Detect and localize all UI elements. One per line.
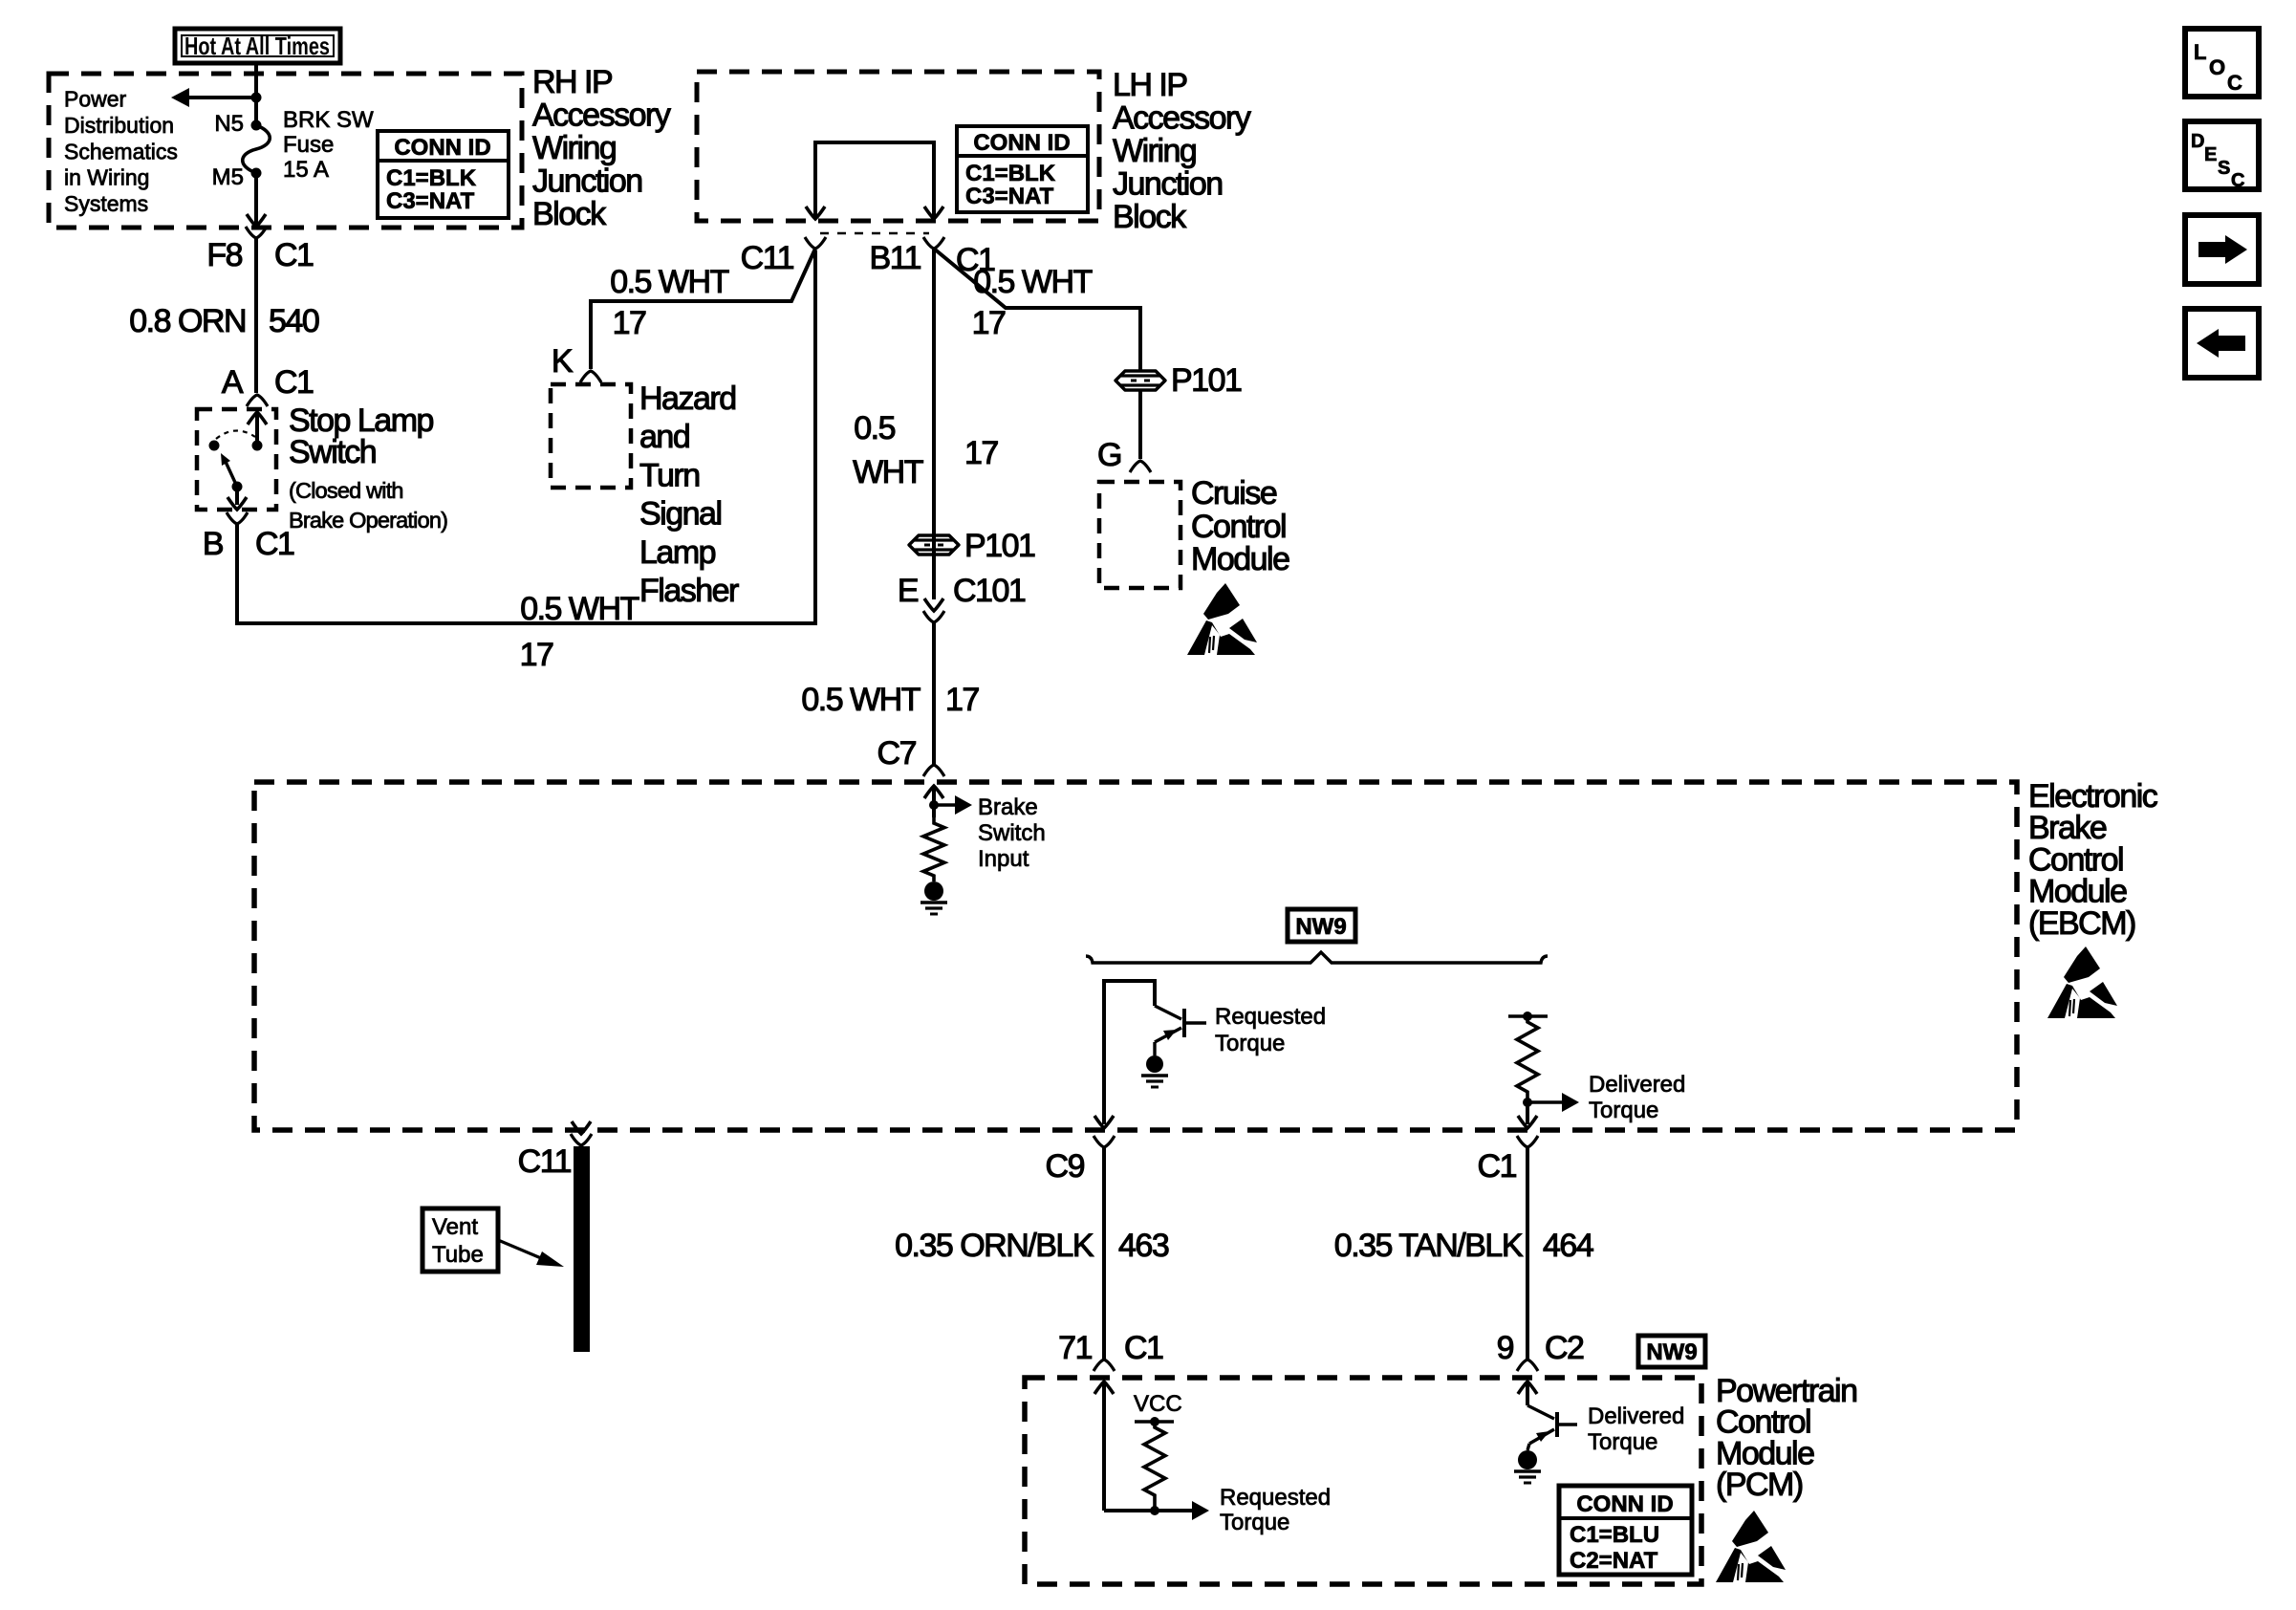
esd symbol (EBCM) bbox=[2047, 946, 2117, 1018]
svg-text:LH IP: LH IP bbox=[1113, 67, 1187, 103]
pin 9 arrow (male up) bbox=[1518, 1382, 1537, 1394]
junction block LH IP (dashed box) bbox=[697, 72, 1099, 221]
esd symbol (cruise control) bbox=[1187, 583, 1257, 655]
transistor Q delivered torque (PCM) bbox=[1527, 1405, 1554, 1419]
svg-text:M5: M5 bbox=[212, 164, 244, 190]
connector C1 pin arrow (male) bbox=[1518, 1116, 1537, 1128]
wire switch output bbox=[235, 487, 239, 505]
svg-text:(PCM): (PCM) bbox=[1716, 1467, 1803, 1503]
wire C9 internal bbox=[1104, 981, 1155, 1124]
wire P101 to cruise module bbox=[1138, 391, 1142, 459]
node M5 bbox=[251, 168, 262, 179]
icon box LOC bbox=[2185, 29, 2259, 97]
vent tube bbox=[574, 1146, 590, 1352]
svg-text:P101: P101 bbox=[964, 528, 1035, 564]
svg-text:0.5: 0.5 bbox=[854, 410, 895, 446]
svg-text:Turn: Turn bbox=[639, 457, 700, 493]
svg-text:C: C bbox=[2231, 170, 2244, 191]
svg-text:Delivered: Delivered bbox=[1589, 1072, 1685, 1098]
svg-text:Accessory: Accessory bbox=[532, 98, 671, 134]
svg-text:Brake: Brake bbox=[978, 794, 1038, 820]
svg-text:0.35 ORN/BLK: 0.35 ORN/BLK bbox=[895, 1228, 1094, 1264]
svg-text:K: K bbox=[552, 343, 574, 380]
connector C1 pin F8 (male) bbox=[247, 214, 266, 227]
pin 71 arrow (male up) bbox=[1094, 1382, 1114, 1394]
conn id table (RH IP) bbox=[378, 131, 509, 218]
svg-text:Vent: Vent bbox=[432, 1214, 478, 1240]
svg-text:(EBCM): (EBCM) bbox=[2028, 905, 2135, 942]
svg-text:C1: C1 bbox=[274, 364, 314, 401]
svg-text:C: C bbox=[2227, 71, 2242, 95]
stop lamp switch input arrow bbox=[248, 412, 267, 424]
conn id table (LH IP) bbox=[957, 126, 1088, 212]
wire from Hot At All Times bbox=[254, 63, 258, 125]
svg-text:0.5 WHT: 0.5 WHT bbox=[610, 264, 728, 300]
junction node (VCC) bbox=[1150, 1417, 1159, 1426]
junction node (brake switch input) bbox=[929, 800, 939, 810]
grommet P101 (cruise branch) bbox=[1116, 371, 1165, 390]
svg-text:VCC: VCC bbox=[1134, 1391, 1182, 1417]
svg-text:C3=NAT: C3=NAT bbox=[965, 184, 1054, 209]
resistor (requested torque PCM) bbox=[1144, 1422, 1165, 1501]
electronic brake control module box bbox=[254, 782, 2017, 1130]
wire 0.35 TAN/BLK 464 bbox=[1526, 1147, 1529, 1360]
svg-text:540: 540 bbox=[269, 303, 319, 339]
wire 0.8 ORN 540 bbox=[254, 238, 258, 393]
svg-text:Wiring: Wiring bbox=[532, 130, 616, 166]
svg-text:E: E bbox=[2204, 144, 2217, 165]
svg-text:CONN ID: CONN ID bbox=[1576, 1491, 1673, 1517]
svg-text:Lamp: Lamp bbox=[639, 534, 716, 571]
cruise control module box bbox=[1099, 482, 1180, 588]
connector B11 / C1 (female) bbox=[923, 237, 944, 249]
fuse BRK SW Fuse 15 A bbox=[243, 125, 271, 173]
svg-text:C11: C11 bbox=[518, 1143, 572, 1180]
resistor (delivered torque) bbox=[1517, 1016, 1538, 1098]
wire to power distribution schematics bbox=[189, 96, 256, 99]
connector C1 (PCM side female) bbox=[1517, 1136, 1538, 1147]
svg-text:Flasher: Flasher bbox=[639, 573, 739, 609]
svg-text:C11: C11 bbox=[741, 240, 794, 276]
ground (brake switch input) bbox=[924, 881, 943, 901]
svg-text:Systems: Systems bbox=[64, 191, 148, 216]
svg-text:17: 17 bbox=[964, 435, 998, 471]
svg-text:C1: C1 bbox=[274, 237, 314, 273]
connector C1 pin B (female) bbox=[227, 512, 248, 524]
svg-text:Hot At All Times: Hot At All Times bbox=[184, 32, 330, 60]
wire fuse to connector bbox=[254, 173, 258, 227]
esd symbol (PCM) bbox=[1716, 1511, 1786, 1582]
stop lamp switch fixed contact bbox=[252, 441, 263, 451]
svg-text:Signal: Signal bbox=[639, 496, 722, 533]
connector C11 vent (male) bbox=[572, 1121, 591, 1134]
connector C1 pin 71 (female half) bbox=[1094, 1360, 1115, 1371]
svg-text:Distribution: Distribution bbox=[64, 113, 174, 138]
junction node bbox=[251, 93, 262, 103]
connector C1 pin A (female half) bbox=[247, 395, 268, 406]
junction block RH IP (dashed box) bbox=[49, 74, 522, 228]
svg-text:Torque: Torque bbox=[1589, 1098, 1658, 1123]
wire delivered to C1 bbox=[1526, 1102, 1529, 1124]
svg-text:and: and bbox=[639, 419, 689, 455]
svg-text:C101: C101 bbox=[953, 573, 1026, 609]
svg-text:17: 17 bbox=[972, 305, 1006, 341]
vent tube pointer arrow bbox=[498, 1240, 541, 1258]
svg-text:O: O bbox=[2209, 55, 2225, 79]
svg-text:Brake Operation): Brake Operation) bbox=[289, 508, 447, 533]
ground (delivered torque PCM) bbox=[1518, 1450, 1537, 1469]
connector C101 pin E (female) bbox=[923, 611, 944, 622]
wire requested torque output bbox=[1104, 1509, 1192, 1512]
svg-text:17: 17 bbox=[520, 637, 553, 673]
connector C9 pin arrow (male) bbox=[1094, 1116, 1114, 1128]
svg-text:C1=BLK: C1=BLK bbox=[965, 161, 1056, 186]
svg-text:A: A bbox=[222, 364, 244, 401]
resistor (brake switch input pull-down) bbox=[923, 817, 944, 881]
svg-text:9: 9 bbox=[1497, 1330, 1514, 1366]
svg-text:P101: P101 bbox=[1171, 362, 1242, 399]
stop lamp switch open contact bbox=[209, 441, 220, 451]
svg-text:Wiring: Wiring bbox=[1113, 133, 1196, 169]
junction node (delivered bottom) bbox=[1523, 1098, 1532, 1107]
wire 0.35 ORN/BLK 463 bbox=[1102, 1147, 1106, 1360]
label box NW9 (EBCM) bbox=[1288, 909, 1355, 942]
VCC stub bbox=[1135, 1420, 1174, 1424]
svg-text:C9: C9 bbox=[1046, 1148, 1085, 1185]
stop lamp switch blade bbox=[226, 462, 237, 487]
icon box DESC bbox=[2185, 121, 2259, 189]
junction node (requested bottom) bbox=[1150, 1506, 1159, 1515]
grommet P101 (main) bbox=[909, 535, 959, 555]
svg-text:Control: Control bbox=[1191, 509, 1286, 545]
svg-text:C1=BLU: C1=BLU bbox=[1570, 1522, 1659, 1548]
svg-text:NW9: NW9 bbox=[1295, 914, 1346, 940]
svg-text:Fuse: Fuse bbox=[283, 132, 334, 158]
connector K (female half) bbox=[580, 371, 601, 382]
brake switch input pin arrow bbox=[924, 786, 943, 798]
svg-text:Torque: Torque bbox=[1220, 1510, 1289, 1535]
signal arrow Requested Torque (PCM) bbox=[1192, 1501, 1209, 1520]
svg-text:D: D bbox=[2191, 131, 2204, 152]
hazard flasher box bbox=[551, 384, 631, 488]
svg-text:Schematics: Schematics bbox=[64, 139, 178, 163]
svg-text:CONN ID: CONN ID bbox=[973, 130, 1070, 156]
connector G (female half) bbox=[1130, 461, 1151, 472]
svg-text:C1=BLK: C1=BLK bbox=[386, 165, 477, 191]
stop lamp switch pivot bbox=[232, 482, 243, 492]
stop lamp switch travel arc bbox=[216, 430, 255, 439]
transistor Q requested torque (EBCM) bbox=[1155, 1006, 1181, 1019]
conn id table (PCM) bbox=[1559, 1486, 1692, 1575]
svg-text:0.5 WHT: 0.5 WHT bbox=[801, 682, 920, 718]
connector C11 (female) bbox=[805, 237, 826, 249]
connector C1 pin B (male) bbox=[227, 497, 247, 510]
svg-text:17: 17 bbox=[945, 682, 979, 718]
svg-text:NW9: NW9 bbox=[1646, 1339, 1697, 1365]
connector C9 (female) bbox=[1094, 1136, 1115, 1147]
svg-text:463: 463 bbox=[1118, 1228, 1169, 1264]
node N5 bbox=[251, 120, 262, 131]
svg-text:C2=NAT: C2=NAT bbox=[1570, 1548, 1658, 1574]
harness brace NW9 bbox=[1086, 952, 1548, 963]
svg-text:BRK SW: BRK SW bbox=[283, 107, 374, 133]
svg-text:in Wiring: in Wiring bbox=[64, 165, 149, 190]
svg-text:Block: Block bbox=[532, 196, 607, 232]
connector C1 pin F8 (female) bbox=[246, 227, 267, 238]
svg-text:G: G bbox=[1097, 437, 1121, 473]
svg-text:0.8 ORN: 0.8 ORN bbox=[129, 303, 246, 339]
signal arrow Brake Switch Input bbox=[934, 803, 955, 806]
svg-text:Block: Block bbox=[1113, 199, 1187, 235]
svg-text:15 A: 15 A bbox=[283, 157, 329, 183]
svg-text:B: B bbox=[203, 526, 223, 562]
internal bus link C11-B11 bbox=[815, 142, 934, 219]
icon box next (right arrow) bbox=[2185, 215, 2259, 284]
wire 0.5 WHT 17 (B11 down) bbox=[932, 249, 936, 599]
svg-text:Hazard: Hazard bbox=[639, 381, 736, 417]
connector C101 pin E (male) bbox=[924, 598, 943, 611]
svg-text:Switch: Switch bbox=[978, 820, 1046, 846]
svg-text:C1: C1 bbox=[1478, 1148, 1517, 1185]
label box NW9 (PCM) bbox=[1638, 1336, 1705, 1367]
junction node (delivered top) bbox=[1523, 1012, 1532, 1021]
svg-text:Module: Module bbox=[1191, 541, 1289, 577]
svg-text:17: 17 bbox=[613, 305, 646, 341]
svg-text:464: 464 bbox=[1543, 1228, 1593, 1264]
signal arrow Delivered Torque (EBCM) bbox=[1527, 1100, 1562, 1103]
svg-text:C7: C7 bbox=[877, 735, 917, 772]
svg-text:L: L bbox=[2194, 40, 2206, 64]
wire delivered torque stub bbox=[1508, 1014, 1548, 1018]
connector C11 vent (female) bbox=[571, 1134, 592, 1145]
svg-text:F8: F8 bbox=[206, 237, 242, 273]
svg-text:71: 71 bbox=[1058, 1330, 1092, 1366]
connector C7 (female half) bbox=[923, 765, 944, 776]
svg-text:C3=NAT: C3=NAT bbox=[386, 188, 475, 214]
svg-text:Cruise: Cruise bbox=[1191, 475, 1277, 511]
ground (requested torque) bbox=[1146, 1055, 1163, 1073]
wire 0.5 WHT 17 (B11 to cruise control) bbox=[934, 249, 1140, 370]
label box Hot At All Times bbox=[175, 29, 340, 63]
svg-text:C1: C1 bbox=[1124, 1330, 1163, 1366]
svg-text:E: E bbox=[898, 573, 919, 609]
svg-text:RH IP: RH IP bbox=[532, 64, 612, 100]
svg-text:0.35 TAN/BLK: 0.35 TAN/BLK bbox=[1334, 1228, 1524, 1264]
label box Vent Tube bbox=[422, 1208, 498, 1272]
svg-text:Switch: Switch bbox=[289, 434, 376, 470]
svg-text:Junction: Junction bbox=[532, 163, 642, 200]
junction block edge between C11 and B11 bbox=[820, 232, 929, 235]
svg-text:S: S bbox=[2218, 158, 2230, 179]
wire 0.5 WHT 17 (C11 to hazard flasher) bbox=[591, 249, 815, 369]
svg-text:Torque: Torque bbox=[1215, 1031, 1285, 1056]
svg-text:Input: Input bbox=[978, 846, 1029, 872]
svg-text:C2: C2 bbox=[1545, 1330, 1584, 1366]
svg-text:Torque: Torque bbox=[1588, 1429, 1657, 1455]
stop lamp switch box bbox=[197, 409, 276, 510]
connector C2 pin 9 (female half) bbox=[1517, 1360, 1538, 1371]
svg-text:Tube: Tube bbox=[432, 1242, 484, 1268]
wire 0.5 WHT 17 (C101 to EBCM) bbox=[932, 622, 936, 765]
svg-text:Requested: Requested bbox=[1220, 1485, 1331, 1511]
svg-text:Power: Power bbox=[64, 87, 127, 112]
powertrain control module box bbox=[1025, 1378, 1701, 1584]
svg-text:Delivered: Delivered bbox=[1588, 1403, 1684, 1429]
icon box prev (left arrow) bbox=[2185, 309, 2259, 378]
svg-text:WHT: WHT bbox=[853, 454, 923, 490]
svg-text:B11: B11 bbox=[870, 240, 921, 276]
svg-text:(Closed with: (Closed with bbox=[289, 478, 403, 503]
svg-text:Junction: Junction bbox=[1113, 166, 1223, 203]
svg-text:0.5 WHT: 0.5 WHT bbox=[973, 264, 1092, 300]
wire 0.5 WHT 17 (stop lamp to C11) bbox=[237, 250, 815, 623]
svg-text:CONN ID: CONN ID bbox=[394, 135, 490, 161]
svg-text:Accessory: Accessory bbox=[1113, 100, 1251, 137]
svg-text:Requested: Requested bbox=[1215, 1004, 1326, 1030]
svg-text:N5: N5 bbox=[214, 111, 244, 137]
svg-text:0.5 WHT: 0.5 WHT bbox=[520, 591, 639, 627]
